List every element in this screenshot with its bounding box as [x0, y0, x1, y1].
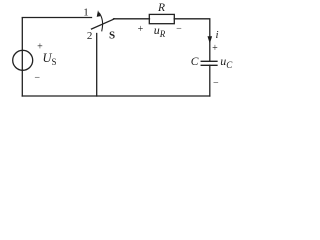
svg-text:i: i	[216, 29, 219, 41]
wire: resistor to top-right corner and down	[174, 19, 210, 61]
svg-text:R: R	[157, 2, 165, 14]
voltage source US circle	[13, 50, 33, 70]
switch S arm	[92, 19, 115, 29]
wire: switch to resistor	[114, 18, 150, 20]
wire: left vertical branch through source	[21, 18, 23, 96]
svg-text:C: C	[191, 56, 199, 68]
svg-text:+: +	[138, 24, 144, 35]
wire: position-2 vertical branch	[96, 34, 98, 97]
wire: bottom return	[22, 95, 210, 97]
wire: capacitor bottom to corner	[209, 65, 211, 96]
svg-text:−: −	[176, 23, 182, 34]
switch throw arrowhead	[97, 10, 101, 17]
resistor R body	[149, 14, 174, 23]
svg-text:−: −	[34, 73, 40, 84]
svg-text:S: S	[109, 29, 115, 41]
svg-text:−: −	[213, 78, 219, 89]
wire: top-left segment to switch contact 1	[22, 17, 91, 19]
svg-text:+: +	[212, 43, 218, 54]
switch throw arrow shaft	[99, 13, 102, 31]
capacitor C top plate	[201, 60, 217, 62]
capacitor C bottom plate	[201, 64, 217, 66]
svg-text:1: 1	[83, 7, 89, 19]
current i arrowhead	[208, 36, 213, 43]
svg-text:2: 2	[87, 30, 93, 42]
